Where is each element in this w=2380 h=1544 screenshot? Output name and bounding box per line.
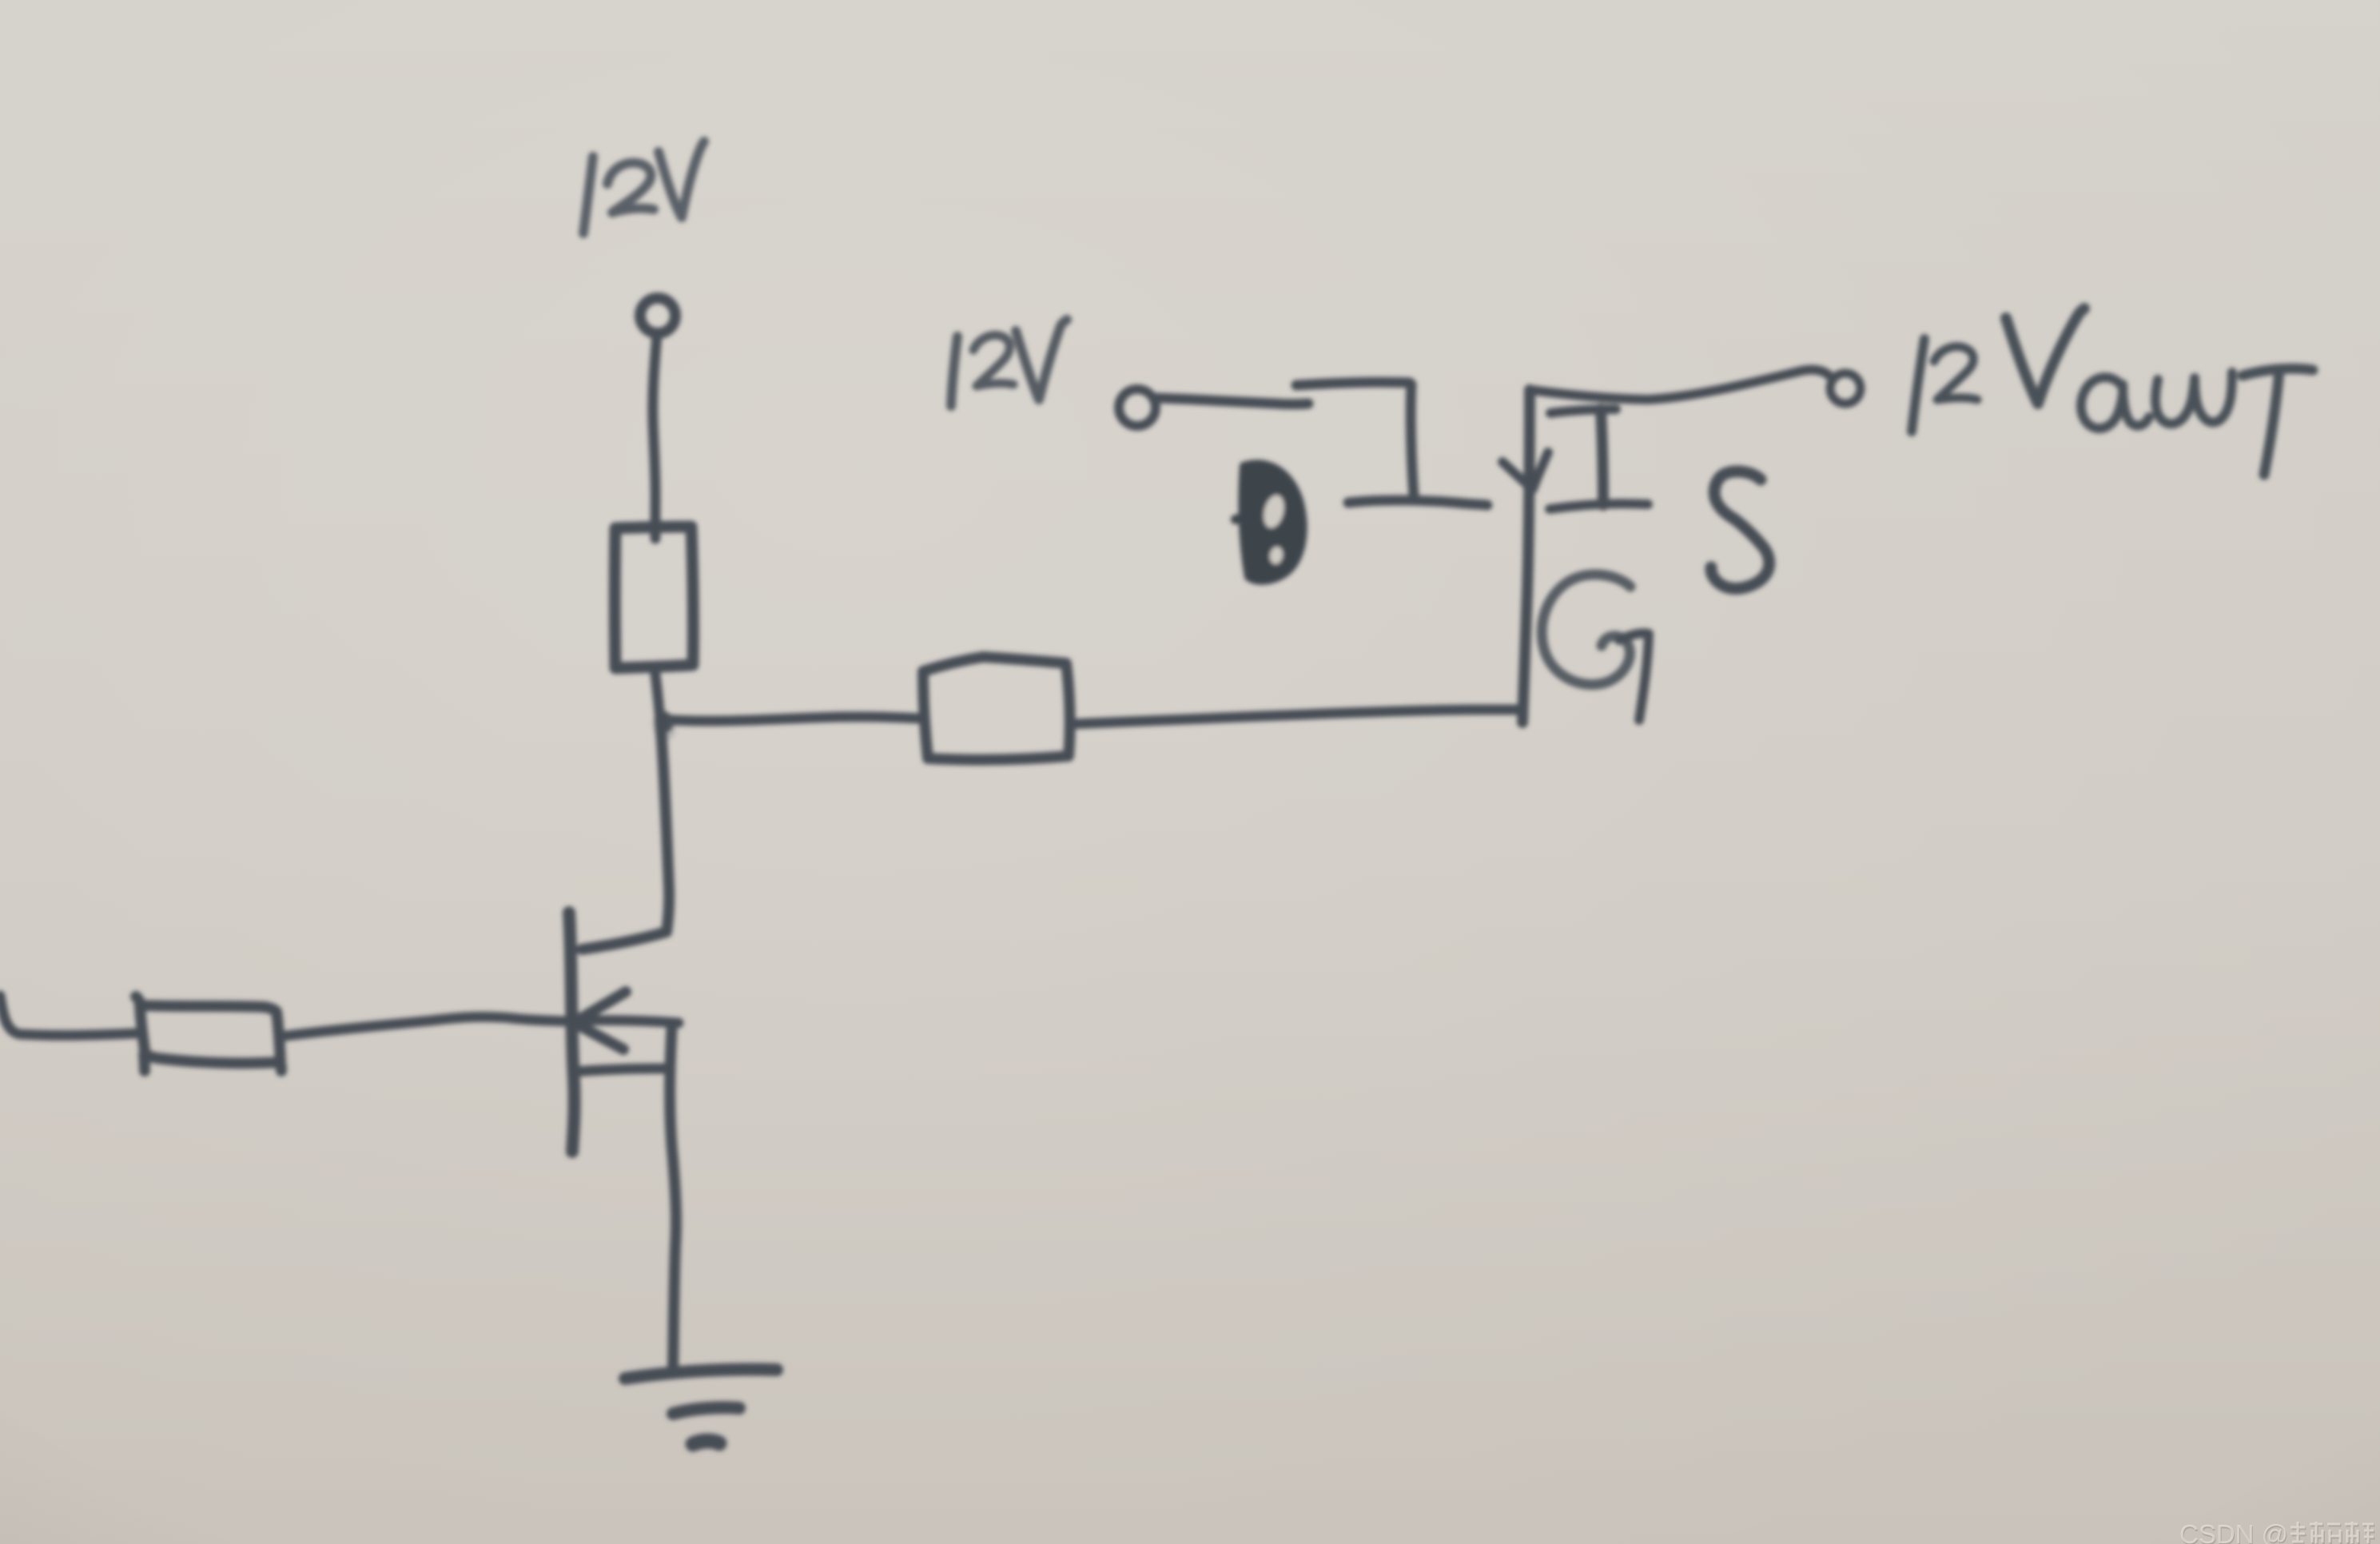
svg-text:CSDN @: CSDN @ xyxy=(2179,1519,2288,1544)
